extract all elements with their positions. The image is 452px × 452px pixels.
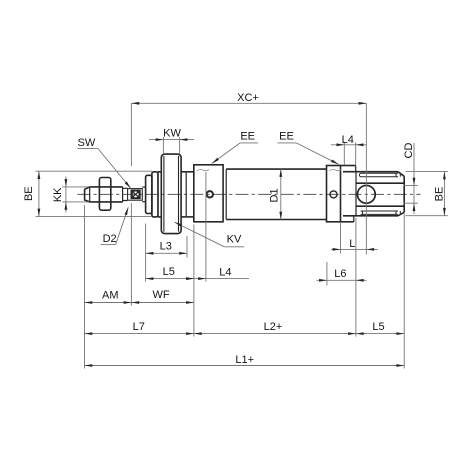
horizontal centerline of cylinder	[77, 193, 420, 195]
clevis right face	[403, 176, 405, 212]
clevis fork top arm	[343, 171, 398, 173]
clevis left joint line	[355, 172, 357, 216]
extension line clevis right face	[403, 214, 405, 369]
dimension L3	[146, 252, 187, 254]
clevis pin hole CD	[357, 185, 375, 203]
svg-text:L4: L4	[342, 134, 354, 146]
front head block with port	[194, 165, 223, 222]
piston rod D2 between flats and front cap	[142, 186, 145, 188]
rear cap block	[327, 166, 341, 222]
dimension L5 front	[146, 278, 194, 280]
svg-text:D1: D1	[268, 188, 280, 202]
extension line head face	[193, 225, 195, 337]
band between nut and head	[181, 171, 186, 173]
dimension WF	[131, 302, 194, 304]
dimension L6	[317, 279, 367, 281]
svg-text:L1+: L1+	[235, 354, 254, 366]
wrench flats SW box with X cross and circle	[128, 189, 143, 201]
front cap collar	[158, 171, 161, 173]
front cap thread band BE	[152, 172, 158, 217]
dimension L5 rear	[356, 333, 404, 335]
svg-text:L3: L3	[160, 241, 172, 253]
svg-text:KW: KW	[163, 128, 181, 140]
dimension L2+	[194, 333, 356, 335]
svg-text:CD: CD	[403, 143, 415, 159]
extension line hole center / XC+ right	[365, 103, 367, 254]
clevis fork bottom arm	[343, 215, 398, 217]
clevis top arm slot	[359, 173, 398, 176]
mounting hex nut (big nut, KW)	[161, 154, 181, 234]
rear port thread squiggle	[329, 169, 341, 170]
rear cap flange top edge	[341, 165, 356, 167]
dimension L4 front	[194, 278, 249, 280]
dimension CD	[413, 143, 415, 214]
front port centerline extension	[205, 172, 207, 282]
piston rod threaded tip (chamfered end)	[85, 187, 90, 202]
svg-text:L5: L5	[372, 321, 384, 333]
cylinder tube D1	[226, 169, 326, 219]
svg-text:L7: L7	[133, 321, 145, 333]
rear port hole EE	[330, 191, 337, 198]
extension line front cap face	[145, 224, 147, 282]
dimension AM	[85, 302, 132, 304]
dimension L7	[85, 333, 194, 335]
front port thread squiggle	[197, 169, 209, 170]
extension line rod tip	[84, 205, 86, 368]
rod groove between thread and wrench flats	[123, 188, 128, 200]
svg-text:D2: D2	[103, 233, 117, 245]
svg-text:WF: WF	[152, 289, 169, 301]
extension line clevis arm plane	[355, 218, 357, 337]
front port hole EE	[207, 191, 213, 197]
svg-text:AM: AM	[102, 290, 119, 302]
svg-text:BE: BE	[23, 186, 35, 201]
extension line rear joint	[340, 223, 342, 254]
extension line SW plane / XC+ left	[130, 103, 132, 166]
svg-text:EE: EE	[279, 131, 294, 143]
front cap face plate	[146, 175, 152, 213]
dimension KW	[149, 139, 194, 141]
svg-text:L5: L5	[163, 266, 175, 278]
dimension BE left	[36, 170, 153, 172]
svg-text:L: L	[349, 238, 355, 250]
dimension D1	[280, 169, 282, 219]
dimension L1+	[85, 365, 405, 367]
dimension L4 rear top	[331, 144, 367, 146]
svg-text:L2+: L2+	[264, 321, 283, 333]
svg-text:L6: L6	[334, 268, 346, 280]
rod thread body KK	[90, 186, 123, 188]
dimension L rear	[331, 248, 378, 250]
extension line nut right	[186, 236, 188, 258]
extension line rear cap left	[326, 262, 328, 286]
svg-text:KK: KK	[52, 187, 64, 202]
neck before front head	[186, 171, 194, 173]
clevis bottom arm slot	[361, 211, 398, 214]
svg-text:EE: EE	[240, 131, 255, 143]
svg-text:BE: BE	[434, 187, 446, 202]
rear cap flange bottom edge	[341, 221, 354, 223]
dimension BE right	[406, 171, 448, 173]
dimension KK	[62, 186, 88, 188]
svg-text:SW: SW	[78, 137, 96, 149]
svg-text:KV: KV	[227, 234, 242, 246]
svg-text:XC+: XC+	[237, 92, 259, 104]
rod lock nut (small hex nut)	[99, 178, 110, 211]
svg-text:L4: L4	[219, 266, 231, 278]
dimension XC+	[131, 102, 366, 104]
